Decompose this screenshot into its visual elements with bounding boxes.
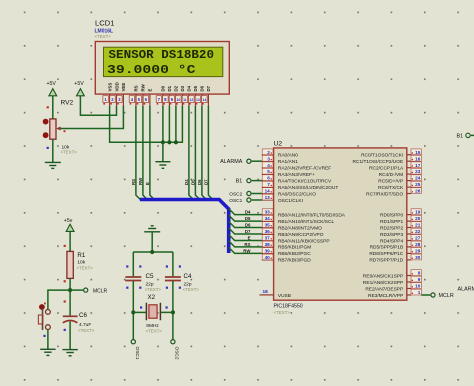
svg-text:5: 5 [267,169,270,174]
svg-text:RD3/SPP3: RD3/SPP3 [380,232,404,238]
svg-text:26: 26 [415,189,421,194]
svg-text:<TEXT>: <TEXT> [183,287,200,292]
RV2 blue marker [47,147,49,149]
svg-text:RW: RW [138,177,143,185]
ground under push button [40,349,55,355]
svg-text:RC2/CCP1/P1A: RC2/CCP1/P1A [369,166,404,172]
wire bus branch D4 to PIC [229,209,263,215]
LCD1 pin stubs 1-14 [110,94,209,106]
svg-text:6: 6 [267,176,270,181]
wire R1 bottom to MCLR node [69,278,71,290]
svg-text:OSC1: OSC1 [229,198,242,204]
svg-text:OSC2: OSC2 [229,191,242,197]
svg-text:17: 17 [415,163,421,168]
svg-text:36: 36 [265,229,271,234]
U2 right pin name texts [353,153,404,299]
svg-text:RW: RW [141,83,146,91]
svg-text:<TEXT>: <TEXT> [146,329,163,334]
svg-text:<TEXT>: <TEXT> [95,34,112,39]
svg-text:C4: C4 [184,273,192,280]
svg-text:OSC1/CLKI: OSC1/CLKI [278,198,303,204]
junction MCLR node [68,288,72,292]
svg-text:RA1/AN1: RA1/AN1 [278,159,298,165]
RV2 red marker [47,106,49,108]
svg-text:3: 3 [267,156,270,161]
junction ground/cap rail [150,250,154,254]
R1 red marker bottom [64,280,66,282]
wire MCLR node to terminal [70,289,83,291]
LCD1 pin name labels VSS VDD VEE RS RW E D0-D7 (rotated) [107,82,211,91]
svg-text:ALARMA: ALARMA [220,159,243,165]
svg-text:RB2/AN8/INT2/VMO: RB2/AN8/INT2/VMO [278,225,322,231]
wire LCD E to bus [150,106,154,200]
wire push button to ground [47,330,49,350]
svg-text:D6: D6 [197,179,202,185]
ground above crystal caps (inverted) [144,226,160,232]
push button blue marker [43,335,45,337]
svg-text:RS: RS [131,179,136,185]
svg-text:7: 7 [267,182,270,187]
svg-text:E: E [248,235,251,240]
U2 right pin number boxes 15-17,23-26,19-22,27-30,8,9,10,1 [411,149,421,295]
capacitor C5 [125,277,141,281]
terminal ALARMA (to PIC left) [220,159,262,165]
terminal OSC1 (to PIC left) [229,198,262,204]
C4 blue markers [166,265,181,288]
terminal OSC2 (to PIC left) [229,191,262,197]
svg-text:VSS: VSS [107,83,112,92]
svg-text:30: 30 [415,255,421,260]
svg-text:RC1/T1OSI/CCP2/UOE: RC1/T1OSI/CCP2/UOE [353,159,404,165]
bus (LCD to PIC port B) [140,200,229,254]
wire RV2 bottom to ground [52,139,54,162]
net labels D4 D5 D6 D7 at LCD side (rotated) [184,179,209,185]
svg-text:RA4/T0CKI/C1OUT/RCV: RA4/T0CKI/C1OUT/RCV [278,178,332,184]
wire LCD D1 to rail [168,106,170,142]
svg-text:RD5/SPP5/P1B: RD5/SPP5/P1B [370,245,404,251]
capacitor C4 [165,277,181,281]
junction C4/crystal [171,310,175,314]
wire LCD RS to bus [136,106,140,200]
svg-text:RA2/AN2/VREF-/CVREF: RA2/AN2/VREF-/CVREF [278,166,331,172]
svg-text:12: 12 [190,98,194,102]
RV2 adjust dot lower [43,132,49,138]
svg-text:16: 16 [415,156,421,161]
wire RV2 wiper to LCD VEE pin [61,106,124,129]
C6 red marker [64,300,66,302]
RV2 adjust dot upper [43,119,49,125]
junction C5/crystal [131,310,135,314]
svg-text:35: 35 [265,223,271,228]
svg-text:MCLR: MCLR [93,288,108,294]
svg-text:RE1/AN6/CK2SPP: RE1/AN6/CK2SPP [363,280,403,286]
svg-text:VUSB: VUSB [278,293,291,299]
svg-text:RC0/T1OSO/T1CKI: RC0/T1OSO/T1CKI [361,153,403,159]
wire ground to cap rail [151,232,153,252]
svg-text:B1: B1 [457,134,464,140]
wire crystal left [133,311,146,313]
svg-text:D1: D1 [167,85,172,91]
svg-text:RV2: RV2 [61,99,74,106]
svg-text:RB6/KBI2/PGC: RB6/KBI2/PGC [278,251,311,257]
svg-text:9: 9 [418,277,421,282]
svg-text:RB0/AN12/INT0/FLT0/SDI/SDA: RB0/AN12/INT0/FLT0/SDI/SDA [278,212,346,218]
svg-text:11: 11 [183,98,187,102]
U2 right pin stubs (ports C,D,E) [407,155,411,295]
svg-text:14: 14 [265,189,271,194]
svg-text:<TEXT>: <TEXT> [274,310,291,315]
terminal MCLR (left section) [84,288,108,294]
U2 left pin stubs (ports A,B + VUSB pin 18) [260,155,274,295]
svg-text:U2: U2 [274,140,283,147]
wire MCLR node to push button [48,290,70,309]
power +5v terminal (feeds R1) [64,218,74,232]
microcontroller U2 PIC18F4550 body [274,148,407,300]
svg-text:27: 27 [415,236,421,241]
crystal X2 body [146,303,160,321]
svg-text:D4: D4 [184,179,189,185]
LCD1 pin number boxes 1-14 [103,96,207,105]
wire LCD D2 to rail [175,106,177,142]
svg-text:<TEXT>: <TEXT> [78,328,95,333]
svg-text:VDD: VDD [114,82,119,91]
svg-text:RB5/KBI1/PGM: RB5/KBI1/PGM [278,245,311,251]
svg-text:RC7/RX/DT/SDO: RC7/RX/DT/SDO [366,191,403,197]
terminal OSC2 (bottom) [171,340,180,360]
wire MCLR node to C6 [69,290,71,316]
junction D1/rail [167,140,171,144]
junction D0/rail [161,140,165,144]
ground under LCD data rail [155,162,170,169]
svg-text:29: 29 [415,249,421,254]
wire LCD D6 to bus [202,106,206,200]
svg-text:E: E [148,89,153,92]
wire bus branch D5 to PIC [229,215,263,221]
svg-text:VEE: VEE [121,83,126,92]
wire C6 to ground [69,322,71,350]
svg-text:D4: D4 [187,85,192,91]
svg-text:RD1/SPP1: RD1/SPP1 [380,219,404,225]
svg-text:RC5/D+/VP: RC5/D+/VP [378,178,403,184]
svg-text:RB7/KBI3/PGD: RB7/KBI3/PGD [278,258,311,264]
svg-text:RS: RS [134,85,139,91]
push button red marker [44,303,46,305]
C6 blue marker [64,329,66,331]
U2 left pin number boxes 2-7,14,13,33-40,18 [262,149,273,294]
svg-text:33: 33 [265,210,271,215]
net labels D4-RW at PIC side [243,210,251,254]
svg-text:ALARM: ALARM [458,287,474,293]
svg-text:14: 14 [203,98,207,102]
wire LCD D5 to bus [195,106,199,200]
svg-text:D7: D7 [203,179,208,185]
svg-text:B1: B1 [236,179,243,185]
wire cap top rail C5-C4 [133,251,173,253]
svg-text:D4: D4 [245,210,251,215]
svg-text:PIC18F4550: PIC18F4550 [274,304,303,310]
svg-text:RW: RW [243,248,251,253]
terminal OSC1 (bottom) [131,340,140,360]
svg-text:15: 15 [415,150,421,155]
svg-text:D5: D5 [245,216,251,221]
junction D2/rail [174,140,178,144]
power +5V terminal (second, feeds LCD VDD) [74,81,84,96]
wire LCD RW to bus [143,106,147,200]
svg-text:RE0/AN5/CK1SPP: RE0/AN5/CK1SPP [363,273,403,279]
svg-text:23: 23 [415,169,421,174]
wire rail to C4 [172,252,174,276]
svg-text:4: 4 [267,163,270,168]
wire C4 to OSC2 node [172,281,174,340]
svg-text:13: 13 [196,98,200,102]
svg-text:28: 28 [415,242,421,247]
svg-text:MCLR: MCLR [439,293,454,299]
ground under RV2 [45,162,61,168]
wire +5V #2 down, right to LCD VDD pin [80,96,116,115]
wire bus branch E to PIC [229,235,263,241]
svg-text:19: 19 [415,210,421,215]
svg-text:RE3/MCLR/VPP: RE3/MCLR/VPP [368,293,403,299]
wire bus branch D7 to PIC [229,228,263,234]
svg-text:D2: D2 [174,85,179,91]
svg-text:D5: D5 [190,179,195,185]
resistor R1 body [67,251,73,278]
svg-text:D7: D7 [206,85,211,91]
R1 red marker top [64,245,66,247]
svg-text:D6: D6 [200,85,205,91]
svg-text:OSC2: OSC2 [174,347,180,360]
svg-text:RA3/AN3/VREF+: RA3/AN3/VREF+ [278,172,315,178]
svg-text:RC6/TX/CK: RC6/TX/CK [378,185,404,191]
svg-text:LCD1: LCD1 [95,19,114,28]
svg-text:37: 37 [265,236,271,241]
X2 blue markers [140,306,168,308]
wire LCD D4 to bus [189,106,193,200]
svg-text:RD6/SPP6/P1C: RD6/SPP6/P1C [369,251,403,257]
wire +5V to RV2 top [52,96,54,119]
LCD display LCD1 body [95,42,229,95]
svg-text:39.0000 °C: 39.0000 °C [107,63,196,77]
wire bus branch RS to PIC [229,241,263,247]
wire bus branch RW to PIC [229,247,263,253]
wire C5 to OSC1 node [132,281,134,340]
svg-text:D6: D6 [245,222,251,227]
svg-text:RD7/SPP7/P1D: RD7/SPP7/P1D [369,258,403,264]
wire LCD D7 to bus [208,106,212,200]
svg-text:1: 1 [418,290,421,295]
svg-text:34: 34 [265,216,271,221]
wire LCD D0 to rail [162,106,164,142]
potentiometer RV2 body [50,119,56,139]
wire rail to ground [162,142,164,161]
svg-text:D3: D3 [180,85,185,91]
svg-text:10: 10 [177,98,181,102]
svg-text:24: 24 [415,176,421,181]
wire LCD VSS down to D0-D3 ground rail [110,106,183,142]
svg-text:R1: R1 [77,252,85,259]
svg-text:RD4/SPP4: RD4/SPP4 [380,238,404,244]
terminal MCLR (right of U2) [431,293,454,299]
svg-text:22: 22 [415,229,421,234]
svg-text:OSC1: OSC1 [134,347,140,360]
wire bus branch D6 to PIC [229,222,263,228]
svg-text:20: 20 [415,216,421,221]
svg-text:2: 2 [267,150,270,155]
power +5V terminal (left, feeds RV2) [47,81,57,96]
wire U2 pin 1 (RE3/MCLR) to MCLR terminal [421,294,430,296]
svg-text:<TEXT>: <TEXT> [77,266,94,271]
svg-text:X2: X2 [148,294,156,301]
svg-text:<TEXT>: <TEXT> [145,287,162,292]
svg-text:RA5/AN4/SS/LVDIN/C2OUT: RA5/AN4/SS/LVDIN/C2OUT [278,185,338,191]
svg-text:18: 18 [262,289,268,294]
RV2 wiper wire red marker [64,130,66,132]
svg-text:RA0/AN0: RA0/AN0 [278,153,298,159]
svg-text:RE2/AN7/OESPP: RE2/AN7/OESPP [365,286,403,292]
svg-text:+5v: +5v [64,218,73,224]
svg-text:D0: D0 [161,85,166,91]
wire +5v to R1 [69,231,71,251]
svg-text:RC4/D-/VM: RC4/D-/VM [379,172,404,178]
svg-text:RD0/SPP0: RD0/SPP0 [380,212,404,218]
svg-text:8: 8 [418,271,421,276]
svg-text:<TEXT>: <TEXT> [61,150,78,155]
LCD1 green screen [104,47,223,76]
svg-text:39: 39 [265,249,271,254]
svg-text:+5V: +5V [74,81,84,87]
C5 blue markers [126,265,141,288]
svg-text:RB1/AN10/INT1/SCK/SCL: RB1/AN10/INT1/SCK/SCL [278,219,335,225]
ground under C6 [62,350,77,356]
wire rail to C5 [132,252,134,276]
svg-text:RD2/SPP2: RD2/SPP2 [380,225,404,231]
svg-text:RS: RS [244,242,250,247]
svg-text:25: 25 [415,182,421,187]
svg-text:SENSOR DS18B20: SENSOR DS18B20 [109,48,215,62]
svg-text:RB3/AN9/CCP2/VPO: RB3/AN9/CCP2/VPO [278,232,324,238]
wire crystal right [160,311,173,313]
terminal B1 (top right edge) [457,133,474,139]
svg-text:+5V: +5V [47,81,57,87]
svg-text:38: 38 [265,242,271,247]
svg-text:13: 13 [265,195,271,200]
svg-text:C5: C5 [146,273,154,280]
svg-text:D7: D7 [245,229,251,234]
push button (reset) [38,304,50,330]
svg-text:RA6/OSC2/CLKO: RA6/OSC2/CLKO [278,191,316,197]
terminal B1 (to PIC left) [236,179,263,185]
svg-text:40: 40 [265,255,271,260]
svg-text:10: 10 [415,284,421,289]
svg-text:E: E [145,182,150,185]
svg-text:C6: C6 [79,312,87,319]
U2 left pin name texts [278,153,346,299]
svg-text:RB4/AN11/KBI0/CSSPP: RB4/AN11/KBI0/CSSPP [278,238,330,244]
capacitor C6 (polarized) [63,316,78,323]
svg-text:D5: D5 [193,85,198,91]
svg-text:21: 21 [415,223,421,228]
net labels RS RW E at LCD side (rotated) [131,177,150,185]
RV2 wiper arrow [56,127,62,131]
